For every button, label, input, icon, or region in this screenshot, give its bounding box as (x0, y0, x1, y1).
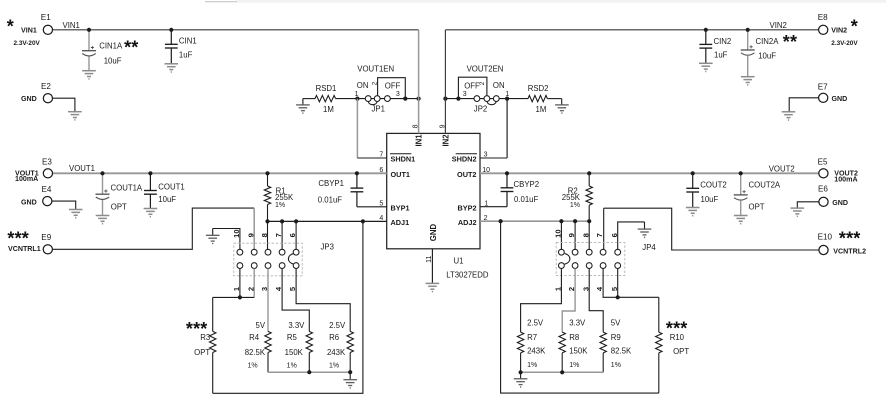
svg-text:2.5V: 2.5V (527, 318, 544, 327)
svg-text:100mA: 100mA (15, 175, 38, 183)
junction ADJ1 col6 (294, 219, 298, 223)
ground below R7 (520, 372, 522, 379)
junction R5 bus (307, 370, 311, 374)
ground at E2 (68, 112, 82, 120)
junction at CIN1 (169, 28, 173, 32)
svg-text:3.3V: 3.3V (569, 318, 586, 327)
ground for RSD2 (561, 99, 563, 105)
ground to JP4 pin6 (618, 222, 645, 249)
ground below CIN2A (741, 77, 755, 85)
junction CBYP2 top (505, 171, 509, 175)
svg-text:R7: R7 (527, 333, 537, 342)
svg-text:8: 8 (581, 233, 590, 237)
connector JP3 outline (234, 243, 302, 276)
svg-text:E8: E8 (818, 13, 828, 22)
svg-text:1%: 1% (275, 202, 285, 209)
svg-text:CIN2: CIN2 (714, 37, 732, 46)
svg-text:82.5K: 82.5K (245, 348, 266, 357)
svg-text:1M: 1M (536, 105, 547, 114)
svg-text:E4: E4 (42, 185, 52, 194)
terminal E7 GND (819, 93, 828, 102)
svg-text:150K: 150K (285, 348, 304, 357)
capacitor COUT1A (102, 173, 104, 194)
junction at COUT2 (691, 171, 695, 175)
wire R4-R6 ground bus (268, 371, 350, 373)
svg-text:IN1: IN1 (415, 134, 424, 147)
svg-text:10uF: 10uF (701, 195, 719, 204)
svg-text:7: 7 (274, 233, 283, 237)
svg-text:GND: GND (429, 224, 438, 242)
wire JP3 outer return to ADJ1 (213, 221, 363, 393)
svg-text:COUT1: COUT1 (158, 183, 184, 192)
svg-text:1%: 1% (329, 362, 339, 369)
ground at E6 (791, 208, 805, 216)
svg-text:**: ** (783, 32, 797, 52)
capacitor CIN1 (170, 30, 172, 45)
svg-text:JP3: JP3 (321, 242, 334, 251)
svg-text:SHDN1: SHDN1 (391, 155, 416, 164)
svg-text:JP2: JP2 (474, 105, 487, 114)
svg-text:0.01uF: 0.01uF (318, 196, 343, 205)
wire VOUT1 rail (52, 172, 386, 174)
wire JP4 pin10 stub (560, 221, 562, 249)
jumper JP2 pins (474, 96, 480, 102)
svg-text:10: 10 (232, 229, 241, 237)
wire SHDN1 to JP1 (356, 99, 358, 158)
wire VIN2 rail (445, 29, 818, 31)
svg-text:ON: ON (493, 81, 505, 90)
svg-text:***: *** (839, 228, 861, 248)
ground below R6 (349, 372, 351, 380)
junction ADJ1-R1 (265, 219, 269, 223)
svg-text:243K: 243K (527, 347, 546, 356)
JP3 pin circles (237, 249, 243, 255)
svg-text:R8: R8 (569, 333, 579, 342)
terminal E2 GND (43, 94, 52, 103)
svg-text:255K: 255K (275, 193, 294, 202)
wire E2 to ground (52, 98, 75, 112)
svg-text:10uF: 10uF (104, 57, 122, 66)
ground below COUT1 (144, 209, 158, 217)
svg-text:OPT: OPT (749, 203, 765, 212)
resistor R10 OPT (658, 297, 660, 332)
wire JP4 pin9 stub (574, 221, 576, 249)
svg-text:OUT1: OUT1 (391, 170, 410, 179)
capacitor CIN2A (747, 30, 749, 50)
svg-text:243K: 243K (327, 348, 346, 357)
svg-text:255K: 255K (562, 193, 581, 202)
resistor R3 OPT (212, 297, 214, 331)
svg-text:RSD1: RSD1 (316, 84, 337, 93)
capacitor CBYP1 (356, 173, 358, 188)
junction R1 top (265, 171, 269, 175)
svg-text:10uF: 10uF (158, 195, 176, 204)
junction ADJ1 col7 (280, 219, 284, 223)
capacitor CIN1A (88, 30, 90, 51)
ground below U1 (426, 283, 440, 291)
svg-text:6: 6 (610, 233, 619, 237)
svg-text:CBYP1: CBYP1 (318, 179, 344, 188)
wire E4 to ground (52, 201, 76, 209)
wire JP4 pin5 leg (617, 269, 619, 298)
node SHDN2 junction (505, 97, 509, 101)
svg-text:VOUT1: VOUT1 (69, 164, 95, 173)
wire JP3 pin6 stub (295, 221, 297, 249)
capacitor COUT2 (692, 173, 694, 188)
resistor RSD2 1M (528, 95, 547, 101)
wire JP2 row (445, 98, 528, 100)
svg-text:E9: E9 (41, 233, 51, 242)
svg-text:1uF: 1uF (714, 51, 728, 60)
wire VOUT2 rail (480, 172, 819, 174)
svg-text:1uF: 1uF (179, 50, 193, 59)
svg-text:VIN2: VIN2 (770, 21, 787, 30)
jumper JP2 shunt arc pins 2-1 (487, 101, 496, 105)
svg-text:11: 11 (426, 256, 433, 263)
wire ADJ2 (480, 220, 589, 222)
svg-text:CIN1: CIN1 (179, 36, 197, 45)
junction ADJ2-R2 (587, 219, 591, 223)
wire E6 to ground (797, 202, 819, 208)
junction at CIN1A (87, 28, 91, 32)
junction CBYP1 top (355, 171, 359, 175)
resistor R2 255K (588, 173, 590, 186)
svg-text:1%: 1% (287, 362, 297, 369)
svg-text:1%: 1% (570, 202, 580, 209)
wire pins1-2 tie to R3 (213, 296, 255, 298)
wire JP3 pin2 leg (253, 269, 255, 298)
junction ADJ1 outer branch (361, 219, 365, 223)
ground at E4 (69, 210, 83, 218)
wire U1 GND pin 11 (431, 249, 433, 284)
faint header band top-right (236, 0, 886, 3)
svg-text:8: 8 (260, 233, 269, 237)
svg-text:GND: GND (21, 95, 37, 103)
svg-text:R4: R4 (249, 333, 260, 342)
IC U1 LT3027EDD body (387, 133, 480, 248)
terminal E4 GND (43, 197, 52, 206)
capacitor CIN2 (705, 30, 707, 45)
junction at JP2 box corner (456, 97, 460, 101)
ground to JP3 pin10 (213, 229, 240, 250)
svg-text:OFF: OFF (385, 82, 401, 91)
svg-text:2.3V-20V: 2.3V-20V (831, 40, 858, 47)
terminal E10 VCNTRL2 (819, 245, 828, 254)
wire R7-R9 ground bus (521, 371, 604, 373)
wire E7 to ground (789, 98, 819, 112)
wire RSD1 to JP1 row (336, 98, 419, 100)
wire JP3 pin7 stub (281, 221, 283, 249)
junction ADJ2 col9 (573, 219, 577, 223)
svg-text:7: 7 (595, 233, 604, 237)
svg-text:R5: R5 (287, 333, 298, 342)
ground below CIN1 (165, 64, 179, 72)
wire IN2 from VIN2 rail (444, 30, 446, 134)
wire JP4 pin4 leg (603, 269, 659, 298)
svg-text:*: * (7, 17, 14, 37)
jumper JP1 shunt arc pins 1-2 (368, 101, 377, 105)
svg-text:2: 2 (371, 81, 378, 85)
wire JP3 pin1 leg (239, 269, 241, 298)
resistor R7 243K (521, 269, 562, 333)
junction R7 bus (519, 370, 523, 374)
svg-text:OPT: OPT (194, 348, 210, 357)
svg-text:1%: 1% (527, 362, 537, 369)
svg-text:IN2: IN2 (442, 134, 451, 147)
junction at COUT1 (148, 171, 152, 175)
svg-text:OUT2: OUT2 (457, 170, 476, 179)
svg-text:9: 9 (567, 233, 576, 237)
junction at JP1 box corner (403, 97, 407, 101)
svg-text:CIN2A: CIN2A (756, 37, 780, 46)
svg-text:GND: GND (832, 199, 848, 207)
svg-text:8: 8 (412, 124, 419, 128)
svg-text:E7: E7 (818, 83, 828, 92)
svg-text:E1: E1 (41, 13, 51, 22)
svg-text:JP4: JP4 (642, 243, 656, 252)
svg-text:R6: R6 (329, 333, 339, 342)
capacitor CBYP2 (506, 173, 508, 188)
svg-text:GND: GND (21, 198, 37, 206)
svg-text:E6: E6 (818, 184, 828, 193)
junction at COUT1A (100, 171, 104, 175)
svg-text:SHDN2: SHDN2 (452, 155, 477, 164)
svg-text:VCNTRL1: VCNTRL1 (8, 245, 41, 253)
resistor R9 82.5K (589, 269, 603, 333)
wire VCNTRL2 to JP4 pin7 (604, 208, 819, 250)
svg-text:100mA: 100mA (834, 175, 857, 183)
svg-text:OPT: OPT (673, 347, 689, 356)
svg-text:LT3027EDD: LT3027EDD (446, 270, 489, 279)
capacitor COUT1 (149, 173, 151, 190)
svg-text:**: ** (124, 38, 138, 58)
svg-text:E10: E10 (818, 233, 833, 242)
svg-text:CIN1A: CIN1A (99, 42, 123, 51)
ground at E7 (782, 112, 796, 120)
svg-text:OPT: OPT (111, 203, 127, 212)
jumper JP1 position box OFF (378, 78, 406, 99)
node SHDN1 junction (355, 97, 359, 101)
svg-text:1%: 1% (611, 362, 621, 369)
resistor R6 243K (296, 269, 350, 332)
svg-text:E3: E3 (42, 158, 52, 167)
ground below CIN1A (82, 71, 96, 79)
junction ADJ2 outer branch (499, 219, 503, 223)
wire SHDN2 to JP2 (506, 99, 508, 158)
junction R6 bus (348, 370, 352, 374)
svg-text:0.01uF: 0.01uF (514, 195, 539, 204)
svg-text:U1: U1 (454, 257, 464, 266)
svg-text:5V: 5V (256, 321, 266, 330)
svg-text:3: 3 (396, 91, 400, 98)
resistor R5 150K (282, 269, 309, 332)
junction pins1-2 node (238, 295, 242, 299)
connector JP4 outline (556, 243, 625, 276)
terminal E5 (819, 169, 828, 178)
jumper JP1 pins (365, 96, 371, 102)
junction R2 top (587, 171, 591, 175)
svg-text:150K: 150K (569, 347, 588, 356)
junction pins4-5 node (616, 295, 620, 299)
svg-text:CBYP2: CBYP2 (514, 180, 540, 189)
terminal E9 VCNTRL1 (43, 245, 52, 254)
wire BYP2 stub (480, 206, 507, 208)
junction at COUT2A (739, 171, 743, 175)
svg-text:1: 1 (355, 91, 359, 98)
svg-text:3.3V: 3.3V (288, 321, 305, 330)
junction ADJ2 col10 (559, 219, 563, 223)
svg-text:GND: GND (832, 95, 848, 103)
svg-text:VIN1: VIN1 (21, 27, 37, 35)
terminal E8 (819, 25, 828, 34)
svg-text:R9: R9 (611, 333, 621, 342)
junction VIN1/IN1 at JP1 row (417, 97, 421, 101)
svg-text:COUT2A: COUT2A (749, 181, 781, 190)
svg-text:VCNTRL2: VCNTRL2 (833, 248, 866, 256)
svg-text:2.5V: 2.5V (329, 321, 346, 330)
wire ADJ1 (268, 220, 387, 222)
svg-text:2.3V-20V: 2.3V-20V (14, 40, 41, 47)
svg-text:COUT2: COUT2 (700, 180, 726, 189)
svg-text:E5: E5 (818, 157, 828, 166)
svg-text:9: 9 (246, 233, 255, 237)
svg-text:1%: 1% (569, 362, 579, 369)
resistor R1 255K (267, 173, 269, 186)
svg-text:VOUT1EN: VOUT1EN (357, 64, 394, 73)
svg-text:R10: R10 (670, 333, 685, 342)
wire JP4 outer return to ADJ2 (501, 221, 659, 393)
svg-text:9: 9 (439, 124, 446, 128)
ground below COUT1A (96, 216, 110, 224)
JP3 shunt arc pins 6-5 (288, 254, 293, 265)
ground below COUT2 (686, 208, 700, 216)
svg-text:2: 2 (479, 81, 486, 85)
svg-text:JP1: JP1 (372, 105, 385, 114)
svg-text:OFF: OFF (464, 82, 480, 91)
resistor R8 150K (562, 269, 575, 333)
ground below COUT2A (734, 216, 748, 224)
svg-text:ADJ2: ADJ2 (458, 218, 477, 227)
svg-text:82.5K: 82.5K (611, 347, 632, 356)
svg-text:RSD2: RSD2 (528, 84, 549, 93)
svg-text:*: * (851, 17, 858, 37)
wire BYP1 stub (357, 206, 387, 208)
svg-text:1M: 1M (323, 105, 334, 114)
JP4 shunt arc pins 10-1 (565, 254, 570, 265)
svg-text:10: 10 (554, 229, 563, 237)
terminal E1 (43, 25, 52, 34)
ground for RSD1 (302, 99, 304, 105)
junction at IN2 line (443, 97, 447, 101)
svg-text:6: 6 (288, 233, 297, 237)
svg-text:E2: E2 (41, 82, 51, 91)
svg-text:BYP1: BYP1 (391, 203, 410, 212)
junction R8 bus (560, 370, 564, 374)
svg-text:VOUT2EN: VOUT2EN (467, 64, 504, 73)
svg-text:5V: 5V (611, 318, 621, 327)
JP4 pin circles (559, 249, 565, 255)
svg-text:R3: R3 (200, 333, 210, 342)
wire VIN1 rail (52, 29, 418, 31)
svg-text:VOUT2: VOUT2 (769, 164, 795, 173)
svg-text:ADJ1: ADJ1 (391, 218, 410, 227)
svg-text:VIN2: VIN2 (831, 27, 847, 35)
capacitor COUT2A (740, 173, 742, 195)
svg-text:BYP2: BYP2 (457, 203, 476, 212)
svg-text:VIN1: VIN1 (63, 21, 80, 30)
wire IN1 from VIN1 rail (418, 30, 420, 134)
svg-text:10uF: 10uF (758, 52, 776, 61)
terminal E3 (43, 169, 52, 178)
jumper JP2 position box OFF (458, 77, 487, 98)
svg-text:3: 3 (463, 91, 467, 98)
svg-text:COUT1A: COUT1A (111, 183, 143, 192)
junction at CIN2 (704, 28, 708, 32)
ground below CIN2 (699, 63, 713, 71)
wire VCNTRL1 to JP3 pin9 (52, 208, 254, 249)
junction at CIN2A (746, 28, 750, 32)
svg-text:1%: 1% (247, 362, 257, 369)
resistor R4 82.5K (267, 269, 269, 332)
resistor RSD1 1M (303, 98, 315, 100)
svg-text:ON: ON (357, 81, 369, 90)
terminal E6 GND (819, 197, 828, 206)
